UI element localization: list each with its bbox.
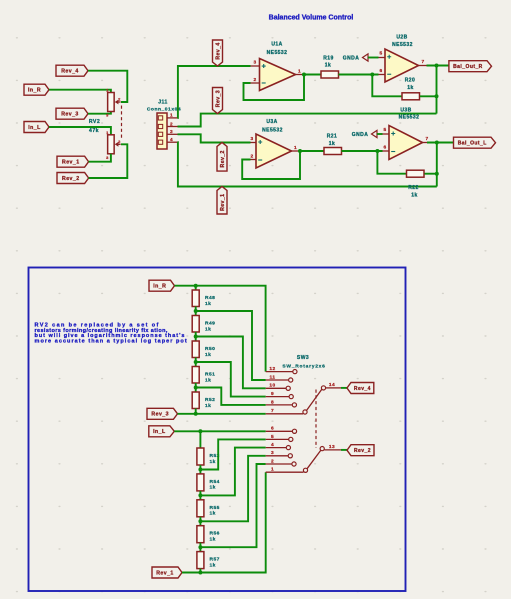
svg-text:4: 4 — [271, 442, 274, 448]
svg-text:R55: R55 — [210, 505, 220, 511]
svg-text:Rev_2: Rev_2 — [354, 448, 371, 454]
svg-text:5: 5 — [271, 434, 274, 440]
resistor R57 — [197, 552, 204, 569]
svg-text:4: 4 — [170, 137, 173, 142]
junction chain L top — [198, 429, 202, 433]
svg-text:SW_Rotary2x6: SW_Rotary2x6 — [282, 363, 325, 369]
svg-text:1k: 1k — [329, 141, 335, 147]
svg-text:R57: R57 — [210, 557, 220, 563]
svg-text:SW3: SW3 — [297, 355, 309, 361]
resistor R50 — [192, 341, 199, 358]
output label Bal_Out_L — [454, 137, 496, 148]
SW3 pin 3 — [266, 455, 289, 457]
resistor R56 — [197, 526, 204, 543]
svg-text:47k: 47k — [89, 128, 99, 134]
svg-text:Rev_1: Rev_1 — [156, 570, 174, 576]
label Rev_1 (bottom section) — [152, 567, 182, 578]
wire chain L junction 3 — [199, 517, 201, 526]
svg-text:3: 3 — [253, 60, 256, 66]
ground GNDA 1 — [363, 54, 369, 61]
svg-text:2: 2 — [118, 97, 121, 102]
svg-text:R19: R19 — [323, 55, 334, 61]
label Rev_4 (pot wiper R) — [56, 65, 88, 76]
svg-text:6: 6 — [379, 68, 382, 74]
wire common lower deck — [341, 449, 347, 451]
junction U3A output — [298, 149, 302, 153]
svg-text:1k: 1k — [210, 485, 216, 491]
wire U3A feedback loop — [242, 151, 300, 179]
wire In_L to SW3 pin6 — [174, 430, 265, 432]
svg-text:1k: 1k — [411, 193, 417, 199]
svg-text:8: 8 — [271, 399, 274, 405]
svg-text:1k: 1k — [205, 301, 211, 307]
SW3 pin 10 — [266, 387, 287, 389]
svg-text:U3B: U3B — [400, 108, 411, 114]
svg-text:NE5532: NE5532 — [399, 115, 420, 121]
vertical net label Rev_3 — [213, 88, 223, 114]
svg-text:R56: R56 — [210, 531, 220, 537]
svg-text:R49: R49 — [205, 321, 215, 327]
resistor R19 — [321, 71, 339, 78]
resistor R54 — [197, 474, 204, 491]
svg-text:3: 3 — [250, 136, 253, 142]
svg-text:2: 2 — [253, 77, 256, 83]
wire U3B output to label and down to Rev_1 rail — [427, 142, 454, 144]
junction R22 output node — [435, 172, 439, 176]
potentiometer RV2 gang 2 — [108, 135, 115, 154]
wire tap R chain to SW3 pin 8 — [196, 388, 266, 405]
resistor R22 — [407, 170, 425, 177]
svg-text:Rev_3: Rev_3 — [151, 412, 169, 418]
resistor R55 — [197, 500, 204, 517]
svg-text:J11: J11 — [158, 100, 167, 106]
wire tap L chain to SW3 pin 2 — [200, 464, 265, 547]
svg-text:1k: 1k — [205, 326, 211, 332]
svg-text:Rev_2: Rev_2 — [220, 150, 226, 167]
wire chain R junction 3 — [195, 358, 197, 367]
svg-text:13: 13 — [329, 444, 335, 450]
potentiometer RV2 gang 1 — [108, 93, 115, 112]
resistor R21 — [324, 148, 342, 155]
svg-text:3: 3 — [271, 450, 274, 456]
svg-text:2: 2 — [118, 139, 121, 144]
wire tap R chain to SW3 pin 10 — [196, 337, 266, 389]
svg-text:Rev_2: Rev_2 — [62, 176, 80, 182]
junction R20 output node — [435, 94, 439, 98]
wire U1A feedback loop — [244, 75, 305, 101]
svg-text:1: 1 — [298, 69, 301, 75]
svg-text:In_R: In_R — [153, 284, 166, 290]
wire net Rev_4 rail: J11 pin1 to U1A + input — [178, 66, 251, 118]
label Rev_3 (bottom section) — [147, 408, 178, 419]
svg-text:In_R: In_R — [28, 88, 41, 94]
junction U2B output — [435, 64, 439, 68]
svg-text:1k: 1k — [205, 352, 211, 358]
wire R22 right to output node — [425, 173, 437, 175]
svg-text:2: 2 — [271, 458, 274, 464]
resistor R53 — [197, 448, 204, 465]
SW3 pin 7 and wiper arm upper deck — [266, 413, 304, 415]
resistor R48 — [192, 290, 199, 307]
label Rev_2 — [57, 173, 89, 184]
wire R19 to U2B - input — [339, 74, 379, 76]
wire U2B output to label and down to Rev_3 rail — [427, 65, 449, 67]
svg-text:Bal_Out_R: Bal_Out_R — [453, 64, 483, 70]
wire GNDA to U3B + input — [377, 133, 383, 135]
wire U2B feedback down to R20 — [372, 75, 402, 97]
svg-text:2: 2 — [170, 121, 173, 126]
label In_L (bottom section) — [149, 426, 175, 437]
svg-text:1k: 1k — [210, 459, 216, 465]
svg-text:1: 1 — [294, 145, 297, 151]
svg-text:3: 3 — [106, 155, 109, 160]
svg-text:7: 7 — [271, 408, 274, 414]
svg-text:1k: 1k — [210, 562, 216, 568]
svg-text:3: 3 — [106, 113, 109, 118]
label Rev_1 — [57, 156, 89, 167]
ground GNDA 2 — [372, 130, 378, 137]
blue section frame — [29, 268, 406, 592]
svg-text:R22: R22 — [408, 185, 419, 191]
svg-text:3: 3 — [170, 129, 173, 134]
svg-text:Rev_3: Rev_3 — [61, 112, 79, 118]
svg-text:1: 1 — [271, 467, 274, 473]
svg-text:6: 6 — [271, 426, 274, 432]
resistor R20 — [402, 93, 420, 100]
svg-text:Rev_4: Rev_4 — [354, 386, 371, 392]
vertical net label Rev_4 — [213, 40, 223, 66]
svg-text:R48: R48 — [205, 295, 215, 301]
SW3 pin 4 — [266, 447, 287, 449]
wire Rev_3 to SW3 pin7 — [178, 413, 266, 415]
svg-text:12: 12 — [269, 366, 275, 372]
label In_L — [24, 122, 49, 133]
svg-text:1k: 1k — [205, 377, 211, 383]
wire U1A out to R19 — [304, 74, 321, 76]
wire Rev_1 to SW3 pin1 — [182, 472, 266, 572]
svg-text:Rev_3: Rev_3 — [215, 90, 221, 107]
wire tap R chain to SW3 pin 11 — [196, 311, 266, 380]
SW3 pin 11 — [266, 379, 289, 381]
SW3 pin 9 — [266, 396, 290, 398]
label Rev_3 — [56, 108, 88, 119]
svg-text:1: 1 — [106, 88, 109, 93]
svg-text:10: 10 — [269, 383, 275, 389]
svg-text:1k: 1k — [407, 85, 413, 91]
resistor R52 — [192, 392, 199, 409]
svg-text:RV2: RV2 — [89, 119, 100, 125]
wire GNDA to U2B + input — [368, 57, 379, 59]
wire net Rev_1 rail: J11 pin4 to bottom rail — [178, 142, 437, 186]
svg-text:1: 1 — [106, 130, 109, 135]
svg-text:U2B: U2B — [396, 35, 407, 41]
junction U1A output — [302, 73, 306, 77]
svg-text:9: 9 — [271, 391, 274, 397]
svg-text:Rev_4: Rev_4 — [215, 42, 221, 59]
wire In_R to SW3 pin12 — [175, 286, 266, 372]
label In_R — [24, 84, 49, 95]
wire chain R junction 4 — [195, 383, 197, 392]
svg-text:R50: R50 — [205, 346, 215, 352]
wire net Rev_2 rail: J11 pin3 to U3A + input — [178, 134, 251, 142]
svg-text:11: 11 — [270, 374, 276, 380]
op-amp U2B — [385, 49, 419, 82]
svg-text:In_L: In_L — [28, 125, 41, 131]
svg-text:NE5532: NE5532 — [262, 128, 283, 134]
wire In_L to RV2 gang2 top — [49, 127, 111, 135]
svg-text:U1A: U1A — [271, 42, 282, 48]
svg-text:U3A: U3A — [266, 119, 277, 125]
output label Bal_Out_R — [449, 61, 492, 72]
svg-text:7: 7 — [421, 59, 424, 65]
vertical net label Rev_2 — [217, 143, 227, 172]
svg-text:GNDA: GNDA — [343, 56, 360, 62]
wire tap L chain to SW3 pin 5 — [200, 439, 265, 469]
svg-text:7: 7 — [425, 136, 428, 142]
label Rev_4 (switch common R) — [347, 383, 374, 394]
wire chain R junction 2 — [195, 332, 197, 341]
wire tap R chain to SW3 pin 9 — [196, 362, 266, 397]
wire Rev_1 to RV2 gang2 bottom — [89, 154, 111, 162]
SW3 pin 2 — [266, 463, 292, 465]
svg-text:2: 2 — [250, 154, 253, 160]
vertical net label Rev_1 — [217, 187, 227, 215]
wire chain L junction 2 — [199, 491, 201, 500]
svg-text:Rev_4: Rev_4 — [61, 69, 79, 75]
wire tap L chain to SW3 pin 4 — [200, 448, 265, 496]
SW3 pin 1 and wiper arm lower deck — [266, 471, 304, 473]
mechanical link dashed RV2 — [121, 106, 123, 140]
wire Rev_3 to RV2 bottom — [88, 112, 111, 114]
wire Rev_2 to RV2 gang2 wiper — [89, 144, 128, 178]
SW3 pin 6 — [266, 430, 293, 432]
svg-text:Conn_01x04: Conn_01x04 — [147, 107, 181, 113]
svg-text:In_L: In_L — [153, 429, 166, 435]
junction U2B inverting node — [370, 73, 374, 77]
svg-text:1k: 1k — [325, 63, 331, 69]
svg-text:Balanced Volume Control: Balanced Volume Control — [269, 15, 354, 22]
svg-text:5: 5 — [379, 51, 382, 57]
wire chain R bottom to Rev_3 — [195, 409, 197, 414]
op-amp U1A — [260, 59, 296, 91]
wire U3A out to R21 — [300, 150, 324, 152]
junction U3B output — [435, 141, 439, 145]
label Rev_2 (switch common L) — [347, 445, 374, 456]
mechanical link dashed SW3 — [315, 390, 317, 449]
junction chain R top — [194, 284, 198, 288]
resistor R49 — [192, 316, 199, 333]
SW3 pin 8 — [266, 404, 293, 406]
wire R21 to U3B - input — [342, 150, 383, 152]
svg-text:R21: R21 — [327, 134, 338, 140]
SW3 pin 5 — [266, 438, 289, 440]
op-amp U3A — [256, 134, 292, 168]
svg-text:1: 1 — [170, 113, 173, 118]
wire chain R junction 1 — [195, 307, 197, 316]
wire In_R to RV2 top — [49, 90, 111, 93]
wire chain L junction 4 — [199, 543, 201, 552]
svg-text:NE5532: NE5532 — [392, 42, 413, 48]
svg-text:R52: R52 — [205, 397, 215, 403]
SW3 pin 12 — [266, 371, 293, 373]
wire net Rev_3 rail: J11 pin2 to right — [178, 114, 437, 127]
wire In_R to R48 chain top — [195, 286, 197, 290]
svg-text:Bal_Out_L: Bal_Out_L — [458, 141, 487, 147]
svg-text:1k: 1k — [210, 537, 216, 543]
svg-text:1k: 1k — [205, 403, 211, 409]
svg-text:Rev_1: Rev_1 — [62, 160, 80, 166]
wire tap L chain to SW3 pin 3 — [200, 456, 265, 522]
svg-text:R51: R51 — [205, 372, 215, 378]
svg-text:14: 14 — [329, 382, 335, 388]
svg-text:6: 6 — [383, 145, 386, 151]
svg-text:R54: R54 — [210, 479, 220, 485]
svg-text:NE5532: NE5532 — [267, 50, 288, 56]
wire chain L junction 1 — [199, 465, 201, 474]
svg-text:more accurate than a typical l: more accurate than a typical log taper p… — [35, 339, 188, 345]
wire U3B feedback down to R22 — [377, 151, 406, 174]
svg-text:GNDA: GNDA — [352, 132, 369, 138]
wire In_L to chain L top — [199, 431, 201, 448]
svg-text:1k: 1k — [210, 511, 216, 517]
resistor R51 — [192, 367, 199, 384]
wire common upper deck — [341, 387, 347, 389]
op-amp U3B — [389, 126, 423, 160]
label In_R (bottom section) — [149, 280, 175, 291]
wire Rev_4 to RV2 wiper — [88, 71, 127, 102]
svg-text:Rev_1: Rev_1 — [220, 194, 226, 211]
wire chain L bottom to Rev_1 — [199, 569, 201, 573]
connector J11 Conn_01x04 — [157, 113, 167, 149]
wire R20 right to output node — [420, 95, 437, 97]
junction U3B inverting node — [375, 149, 379, 153]
svg-text:5: 5 — [383, 127, 386, 133]
svg-text:R20: R20 — [405, 77, 416, 83]
